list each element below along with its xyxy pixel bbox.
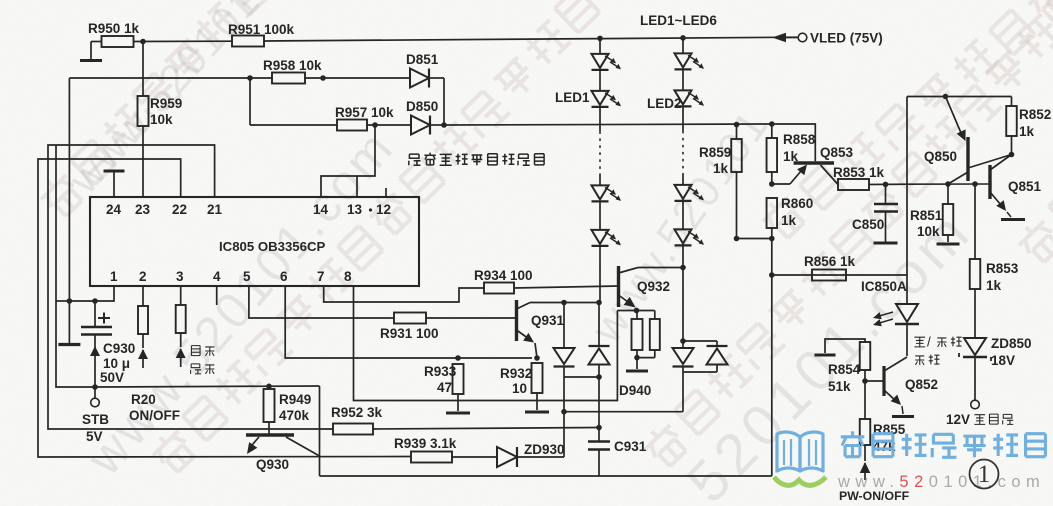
svg-text:VLED (75V): VLED (75V): [810, 31, 883, 46]
svg-text:10: 10: [512, 381, 527, 396]
svg-text:R952 3k: R952 3k: [331, 405, 383, 420]
svg-text:R939 3.1k: R939 3.1k: [394, 436, 457, 451]
svg-text:6: 6: [280, 269, 288, 284]
svg-text:Q851: Q851: [1008, 179, 1042, 194]
svg-text:ON/OFF: ON/OFF: [129, 408, 180, 423]
svg-text:1k: 1k: [781, 213, 797, 228]
svg-text:1: 1: [978, 461, 991, 488]
svg-text:IC805 OB3356CP: IC805 OB3356CP: [219, 239, 325, 254]
svg-text:12V: 12V: [946, 412, 970, 427]
svg-text:10k: 10k: [917, 224, 940, 239]
svg-text:R20: R20: [131, 392, 156, 407]
svg-text:5V: 5V: [86, 429, 103, 444]
svg-text:www.520101.com: www.520101.com: [837, 473, 1045, 491]
svg-text:12: 12: [376, 202, 391, 217]
svg-text:47: 47: [437, 380, 452, 395]
svg-text:IC850A: IC850A: [861, 279, 907, 294]
svg-text:1k: 1k: [1019, 124, 1035, 139]
svg-text:1k: 1k: [713, 161, 729, 176]
svg-text:Q931: Q931: [531, 313, 565, 328]
svg-text:Q930: Q930: [256, 457, 289, 472]
svg-text:10k: 10k: [150, 112, 173, 127]
svg-text:23: 23: [135, 202, 151, 217]
svg-text:5: 5: [243, 269, 251, 284]
svg-text:1: 1: [110, 269, 118, 284]
svg-text:PW-ON/OFF: PW-ON/OFF: [839, 489, 910, 503]
svg-text:R860: R860: [781, 196, 813, 211]
svg-text:R852: R852: [1019, 107, 1051, 122]
svg-text:R949: R949: [279, 392, 311, 407]
svg-text:2: 2: [139, 269, 147, 284]
svg-text:R859: R859: [699, 145, 731, 160]
svg-text:R853 1k: R853 1k: [833, 165, 885, 180]
svg-text:21: 21: [207, 202, 223, 217]
svg-text:D940: D940: [619, 383, 651, 398]
svg-text:18V: 18V: [991, 353, 1015, 368]
svg-text:8: 8: [344, 269, 352, 284]
svg-text:13: 13: [347, 202, 363, 217]
svg-text:ZD850: ZD850: [991, 336, 1032, 351]
svg-text:3: 3: [176, 269, 184, 284]
svg-text:R950 1k: R950 1k: [88, 21, 140, 36]
svg-text:Q850: Q850: [924, 149, 957, 164]
svg-text:R959: R959: [150, 96, 182, 111]
svg-text:R851: R851: [910, 208, 943, 223]
svg-text:ZD930: ZD930: [524, 442, 565, 457]
svg-text:Q853: Q853: [820, 145, 854, 160]
svg-text:C930: C930: [103, 341, 135, 356]
svg-text:LED2: LED2: [647, 96, 682, 111]
svg-text:R932: R932: [500, 366, 532, 381]
svg-text:4: 4: [213, 269, 221, 284]
svg-text:/: /: [927, 334, 931, 349]
svg-text:10 μ: 10 μ: [103, 356, 130, 371]
svg-text:1k: 1k: [986, 278, 1002, 293]
svg-text:D851: D851: [406, 52, 439, 67]
svg-text:R853: R853: [986, 261, 1019, 276]
svg-text:LED1~LED6: LED1~LED6: [640, 13, 717, 28]
svg-text:D850: D850: [406, 99, 438, 114]
svg-text:R958 10k: R958 10k: [263, 58, 322, 73]
svg-text:R957 10k: R957 10k: [335, 105, 394, 120]
svg-text:470k: 470k: [279, 408, 310, 423]
svg-text:C850: C850: [852, 217, 884, 232]
svg-text:14: 14: [313, 202, 329, 217]
svg-text:22: 22: [172, 202, 187, 217]
svg-text:R858: R858: [783, 132, 816, 147]
svg-text:24: 24: [106, 202, 122, 217]
svg-text:R856 1k: R856 1k: [804, 254, 856, 269]
svg-text:50V: 50V: [100, 370, 124, 385]
svg-text:51k: 51k: [828, 379, 851, 394]
svg-text:Q932: Q932: [637, 279, 670, 294]
svg-text:R934 100: R934 100: [474, 268, 533, 283]
svg-text:STB: STB: [82, 412, 109, 427]
svg-text:7: 7: [317, 269, 325, 284]
svg-text:Q852: Q852: [905, 377, 938, 392]
svg-text:R854: R854: [828, 362, 861, 377]
svg-text:C931: C931: [614, 439, 647, 454]
svg-text:R931 100: R931 100: [380, 326, 439, 341]
svg-text:LED1: LED1: [555, 90, 590, 105]
